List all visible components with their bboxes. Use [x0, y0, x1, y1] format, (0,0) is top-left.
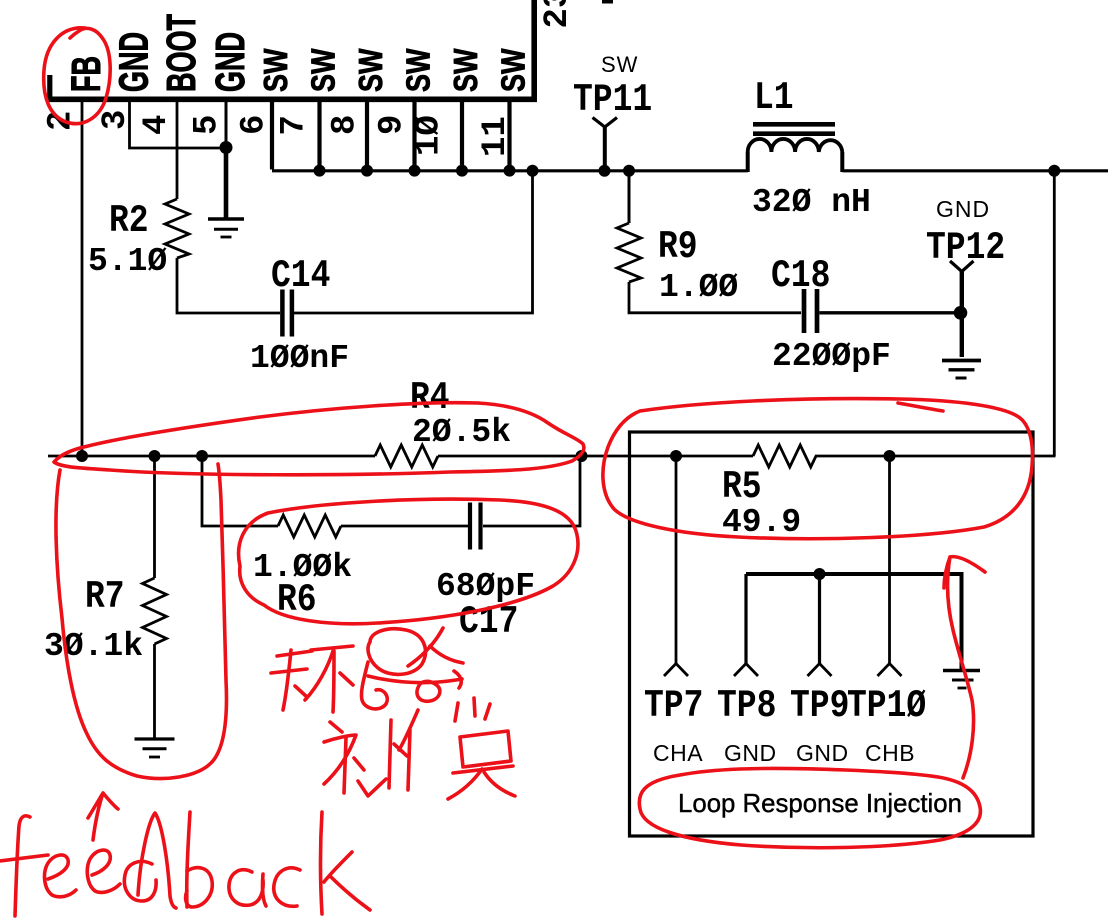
resistor R7 — [143, 456, 167, 738]
svg-text:5.1Ø: 5.1Ø — [88, 243, 167, 280]
svg-text:CHA: CHA — [653, 740, 703, 766]
junction dot TP12 — [954, 306, 968, 320]
svg-text:BOOT: BOOT — [159, 14, 204, 92]
svg-text:6: 6 — [235, 115, 273, 135]
TP8 test point — [734, 574, 758, 676]
wire gnd link to ground — [960, 574, 964, 669]
svg-text:R2: R2 — [109, 199, 149, 243]
inductor L1 — [748, 124, 843, 172]
junction dot SW pin9 — [409, 165, 421, 177]
red hanzi chang — [358, 698, 515, 799]
svg-text:GND: GND — [796, 740, 849, 766]
svg-text:GND: GND — [112, 32, 157, 92]
red handwritten feedback — [0, 812, 370, 916]
TP7 test point — [664, 456, 688, 676]
svg-text:3Ø.1k: 3Ø.1k — [44, 628, 143, 665]
ground GND3 — [135, 739, 175, 757]
wire pin11 SW stub — [507, 102, 511, 170]
wire pin5 to ground — [224, 148, 229, 218]
TP12 test point — [950, 261, 974, 313]
svg-text:SW: SW — [400, 48, 438, 92]
svg-text:GND: GND — [208, 32, 253, 92]
svg-text:SW: SW — [257, 48, 295, 92]
svg-text:2Ø.5k: 2Ø.5k — [412, 414, 511, 451]
wire R9 to C18 — [629, 282, 801, 313]
svg-text:SW: SW — [352, 48, 390, 92]
svg-text:5: 5 — [188, 115, 226, 135]
red tall loop around R7 feedback — [56, 464, 227, 778]
svg-text:9: 9 — [373, 115, 411, 135]
wire pin6 SW stub — [270, 102, 274, 170]
resistor R9 — [628, 171, 631, 223]
SW bus wire right of L1 — [842, 169, 1108, 172]
wire C17 up to net — [483, 456, 580, 526]
red hanzi huan — [271, 646, 353, 712]
wire pin8 SW stub — [365, 102, 369, 170]
svg-text:GND: GND — [724, 740, 777, 766]
red up arrow in box — [948, 557, 985, 778]
junction dot output right — [1048, 165, 1060, 177]
capacitor C14 — [282, 290, 292, 337]
wire pin5 GND — [225, 102, 228, 147]
svg-text:7: 7 — [275, 115, 313, 135]
feedback net wire — [48, 455, 1056, 458]
junction dot TP7 — [670, 450, 682, 462]
box Loop Response Injection — [630, 432, 1034, 836]
svg-text:C17: C17 — [459, 600, 518, 644]
junction dot pin5 GND — [220, 141, 233, 154]
ground GND2 — [942, 361, 981, 379]
junction dot C14 branch — [527, 165, 539, 177]
svg-text:Loop Response Injection: Loop Response Injection — [678, 790, 962, 818]
svg-text:SW: SW — [305, 48, 343, 92]
capacitor C18 — [804, 289, 817, 333]
red hanzi bu — [324, 720, 407, 793]
junction dot TP10 — [884, 450, 896, 462]
wire R2 to C14 — [177, 258, 280, 313]
resistor R4 — [375, 445, 438, 467]
svg-text:4: 4 — [138, 115, 176, 135]
svg-text:C18: C18 — [771, 254, 830, 298]
partial label top right — [602, 0, 613, 4]
wire output drop — [1053, 171, 1056, 456]
junction dot R4 right — [576, 450, 588, 462]
resistor R2 — [165, 199, 189, 258]
wire R6 to C17 — [341, 525, 468, 528]
svg-text:GND: GND — [936, 196, 990, 222]
svg-text:SW: SW — [495, 48, 533, 92]
SW bus wire — [272, 169, 748, 172]
red circle around FB — [44, 28, 110, 124]
svg-text:TP12: TP12 — [926, 226, 1005, 270]
IC U? body top edge — [46, 0, 537, 102]
wire pin9 SW stub — [412, 102, 416, 170]
svg-text:R5: R5 — [722, 465, 762, 509]
capacitor C17 — [470, 503, 481, 550]
svg-text:SW: SW — [447, 48, 485, 92]
ground GND4 — [943, 671, 980, 689]
svg-text:22ØØpF: 22ØØpF — [772, 338, 891, 375]
svg-text:TP7: TP7 — [644, 684, 703, 728]
svg-text:TP1Ø: TP1Ø — [847, 684, 926, 728]
wire pin7 SW stub — [317, 102, 321, 170]
svg-text:1.ØØ: 1.ØØ — [659, 269, 738, 306]
svg-text:CHB: CHB — [865, 740, 915, 766]
red loop around R5 injection — [603, 399, 1033, 539]
red loop around R4 net — [54, 403, 584, 475]
svg-text:R7: R7 — [85, 575, 125, 619]
svg-text:TP11: TP11 — [573, 78, 652, 122]
wire TP12 to ground — [960, 313, 964, 357]
svg-text:23: 23 — [539, 0, 577, 29]
junction dot R7 branch — [149, 450, 161, 462]
junction dot FB net — [76, 450, 88, 462]
junction dot TP11 — [599, 165, 611, 177]
TP9 test point — [808, 574, 832, 676]
svg-text:TP9: TP9 — [790, 684, 849, 728]
svg-text:FB: FB — [64, 56, 109, 92]
wire pin2 FB down to feedback net — [81, 102, 84, 456]
wire R6 branch — [202, 456, 278, 526]
wire C14 to SW bus — [294, 171, 533, 313]
junction dot TP9 — [814, 568, 826, 580]
wire pin10 SW stub — [460, 102, 464, 170]
junction dot SW pin11 — [504, 165, 516, 177]
TP10 test point — [878, 456, 902, 676]
svg-text:TP8: TP8 — [717, 684, 776, 728]
svg-text:32Ø nH: 32Ø nH — [752, 184, 871, 221]
junction dot SW pin7 — [314, 165, 326, 177]
red loop around Loop Response Injection — [639, 768, 980, 847]
gnd link wire TP8 TP9 — [746, 572, 964, 576]
wire C18 to TP12 — [820, 311, 958, 314]
svg-text:L1: L1 — [754, 76, 794, 120]
ground GND1 — [208, 219, 244, 237]
junction dot R9 branch — [623, 165, 635, 177]
red loop around R6 C17 compensation — [239, 499, 578, 624]
TP11 test point — [593, 118, 618, 172]
red arrow to feedback node — [88, 793, 118, 840]
resistor R5 — [753, 445, 816, 467]
red tail stroke on R5 loop — [898, 403, 943, 411]
resistor R6 — [278, 515, 341, 537]
svg-text:R9: R9 — [658, 225, 698, 269]
junction dot SW pin10 — [456, 165, 468, 177]
junction dot SW pin8 — [361, 165, 373, 177]
wire pin4 BOOT — [176, 102, 179, 199]
svg-text:1ØØnF: 1ØØnF — [250, 340, 349, 377]
svg-text:SW: SW — [601, 52, 638, 77]
wire pin3 GND — [130, 102, 227, 148]
red hanzi lu — [361, 628, 463, 709]
svg-text:8: 8 — [326, 115, 364, 135]
svg-text:C14: C14 — [271, 254, 330, 298]
junction dot R6 branch — [196, 450, 208, 462]
